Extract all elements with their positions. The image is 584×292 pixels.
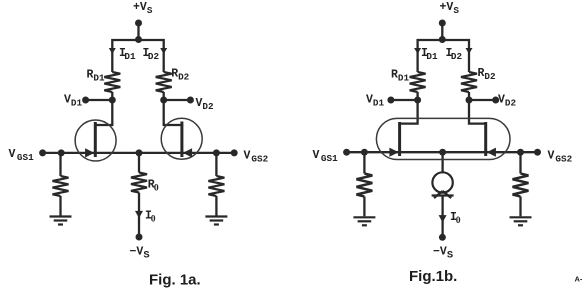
svg-text:RD2: RD2 [171, 68, 189, 83]
svg-text:+VS: +VS [440, 1, 460, 16]
svg-text:ID2: ID2 [446, 47, 463, 62]
svg-text:RD1: RD1 [391, 69, 409, 84]
svg-text:ID1: ID1 [421, 47, 438, 62]
svg-text:I0: I0 [145, 210, 156, 225]
svg-text:−VS: −VS [130, 246, 150, 262]
svg-text:ID1: ID1 [119, 47, 136, 62]
svg-text:VGS2: VGS2 [244, 150, 269, 165]
svg-text:VD2: VD2 [196, 97, 214, 112]
svg-text:Fig.1b.: Fig.1b. [409, 268, 457, 285]
svg-text:R0: R0 [148, 179, 159, 194]
svg-text:Fig. 1a.: Fig. 1a. [149, 272, 201, 289]
svg-text:RD1: RD1 [87, 69, 105, 84]
svg-text:VGS1: VGS1 [9, 148, 35, 163]
svg-text:ID2: ID2 [143, 47, 160, 62]
svg-text:VGS2: VGS2 [548, 150, 573, 165]
svg-text:+VS: +VS [133, 1, 153, 16]
svg-text:VGS1: VGS1 [313, 149, 339, 164]
svg-text:A-: A- [575, 275, 583, 284]
svg-text:VD2: VD2 [498, 94, 516, 109]
svg-text:−VS: −VS [433, 246, 453, 262]
svg-text:VD1: VD1 [64, 94, 82, 109]
svg-text:I0: I0 [450, 211, 461, 226]
svg-text:VD1: VD1 [366, 94, 384, 109]
svg-text:RD2: RD2 [478, 67, 496, 82]
